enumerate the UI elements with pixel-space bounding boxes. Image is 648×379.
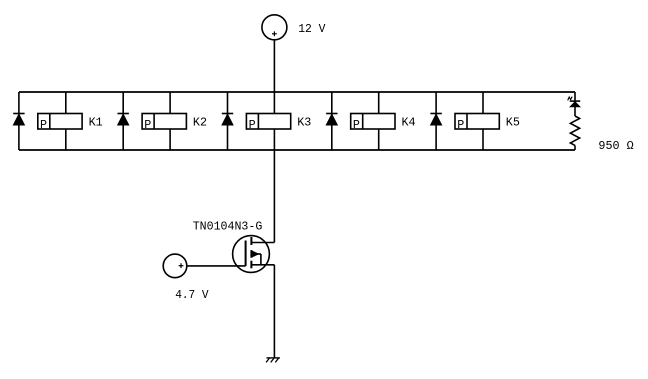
svg-text:950 Ω: 950 Ω: [598, 139, 634, 153]
svg-text:P: P: [249, 118, 256, 132]
svg-text:K1: K1: [89, 116, 103, 130]
svg-text:P: P: [144, 118, 151, 132]
svg-text:P: P: [353, 118, 360, 132]
svg-text:P: P: [457, 118, 464, 132]
svg-text:TN0104N3-G: TN0104N3-G: [193, 220, 263, 234]
svg-text:4.7 V: 4.7 V: [175, 288, 209, 302]
svg-text:K4: K4: [402, 116, 416, 130]
svg-text:K5: K5: [506, 116, 520, 130]
svg-text:12 V: 12 V: [298, 22, 326, 36]
svg-text:K2: K2: [193, 116, 207, 130]
svg-text:P: P: [40, 118, 47, 132]
svg-text:K3: K3: [297, 116, 311, 130]
